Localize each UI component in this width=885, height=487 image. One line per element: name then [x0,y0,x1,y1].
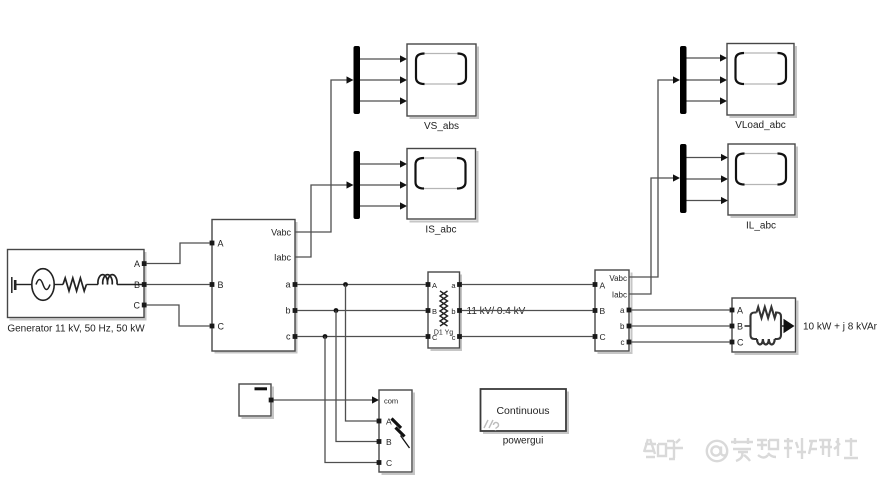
svg-text:com: com [384,397,398,406]
svg-text:B: B [386,437,392,447]
load output thick arrow [781,325,784,327]
junction node on phase c [323,334,328,339]
generator port squares A B C [142,261,147,266]
wire generator A to measurement1 A [147,243,210,264]
svg-text:C: C [218,322,225,332]
wire meas2 Iabc to demux IL [629,178,674,294]
svg-text:Vabc: Vabc [609,274,627,283]
generator series inductor [98,275,117,285]
transformer port squares right a b c [457,282,462,287]
fault port squares A B C [377,419,382,424]
svg-text:C: C [737,338,744,348]
char 科 [784,438,806,459]
wire generator B to measurement1 B [147,284,210,286]
svg-text:B: B [737,322,743,332]
svg-text:10 kW + j 8 kVAr: 10 kW + j 8 kVAr [803,322,878,333]
demux IL output wires to scope IL_abc [687,154,729,204]
svg-text:A: A [134,259,140,269]
wire constant to fault com [274,399,373,401]
svg-text:D1 Yg: D1 Yg [434,330,453,337]
meas2 output port squares a b c [627,308,632,313]
svg-text:A: A [386,417,392,427]
scope block IL_abc [728,144,797,232]
junction node on phase b [334,308,339,313]
wire meas1 Vabc to demux VS [295,80,347,232]
step/constant control block [239,384,274,418]
svg-text:11 kV/ 0.4 kV: 11 kV/ 0.4 kV [467,306,526,317]
char 想 [757,440,778,458]
char 乎 [665,439,683,459]
svg-text:A: A [432,281,437,290]
wire phase c tap to fault C [325,337,377,463]
generator AC source circle [32,269,54,301]
three-phase V-I measurement block 2 [593,270,632,353]
transformer port squares left A B C [426,282,431,287]
wire phase a tap to fault A [346,285,378,422]
svg-text:c: c [621,338,625,347]
svg-text:C: C [600,332,606,342]
svg-text:powergui: powergui [503,436,544,447]
demux VLoad output wires to scope VLoad_abc [687,54,728,104]
wire meas2 Vabc to demux VLoad [629,80,674,277]
char 知 [644,439,666,457]
powergui corner icon [484,420,499,431]
wire phase b tap to fault B [336,311,377,442]
svg-text:A: A [600,281,606,291]
three-phase fault block [377,390,414,474]
char @ [707,441,727,461]
svg-text:IS_abc: IS_abc [425,225,456,236]
wire bus phase b meas1 to transformer B [297,310,425,312]
scope block VS_abs [407,44,478,132]
svg-text:Iabc: Iabc [612,291,627,300]
svg-text:VLoad_abc: VLoad_abc [735,120,786,131]
svg-text:a: a [620,306,625,315]
load RLC icon [745,325,751,327]
svg-text:b: b [285,306,290,316]
load port squares A B C [730,308,735,313]
wire meas2 c to load C [631,341,729,343]
meas1 output port squares a b c [293,282,298,287]
generator block Generator 11 kV, 50 Hz, 50 kW [7,250,146,335]
svg-text:b: b [620,322,625,331]
svg-text:Generator 11 kV, 50 Hz, 50 kW: Generator 11 kV, 50 Hz, 50 kW [7,324,145,335]
three-phase V-I measurement block 1 [210,220,298,353]
svg-text:C: C [134,301,141,311]
svg-text:Continuous: Continuous [496,405,549,417]
wire meas2 b to load B [631,325,729,327]
powergui block [481,389,569,447]
junction node on phase a [343,282,348,287]
watermark 知乎 @梦想科研社 [644,438,858,461]
svg-text:IL_abc: IL_abc [746,221,776,232]
generator ground terminal symbol [11,277,13,293]
svg-text:A: A [737,306,743,316]
char 研 [809,440,832,457]
svg-text:a: a [285,280,290,290]
demux IL (black bar) [680,144,687,213]
meas2 input port squares A B C [593,282,598,287]
load resistor (top branch) [757,307,777,318]
demux VS output wires to scope VS_abs [360,55,407,104]
demux IS (black bar) [354,151,361,219]
char 社 [834,438,858,458]
wire bus phase a meas1 to transformer A [297,284,425,286]
demux VS (black bar) [354,46,361,114]
svg-text:B: B [432,307,437,316]
transformer block 11 kV / 0.4 kV [426,272,526,350]
svg-text:b: b [451,307,455,316]
wire bus phase c meas1 to transformer C [297,336,425,338]
scope block IS_abc [407,149,478,236]
fault lightning bolt icon [392,419,402,429]
svg-text:B: B [600,306,606,316]
svg-text:Vabc: Vabc [271,228,291,238]
demux IS output wires to scope IS_abc [360,160,407,209]
svg-text:B: B [218,280,224,290]
generator series resistor [63,278,86,291]
constant output port square [269,398,274,403]
scope block VLoad_abc [727,44,796,132]
transformer winding icon [440,291,448,326]
svg-text:c: c [286,332,291,342]
svg-text:Iabc: Iabc [274,253,292,263]
load inductor (bottom branch) [757,339,775,345]
svg-text:A: A [218,239,224,249]
meas1 input port squares A B C [210,241,215,246]
step icon dash [255,387,268,390]
wire meas2 a to load A [631,309,729,311]
three-phase parallel RLC load block [730,298,878,354]
wire transformer b to meas2 B [462,310,593,312]
wire transformer a to meas2 A [462,284,593,286]
wire transformer c to meas2 C [462,336,593,338]
svg-text:B: B [134,280,140,290]
svg-text:VS_abs: VS_abs [424,121,459,132]
char 梦 [731,438,753,461]
wire meas1 Iabc to demux IS [295,185,347,257]
svg-text:C: C [386,458,392,468]
demux VLoad (black bar) [680,46,687,114]
wire generator C to measurement1 C [147,305,210,326]
